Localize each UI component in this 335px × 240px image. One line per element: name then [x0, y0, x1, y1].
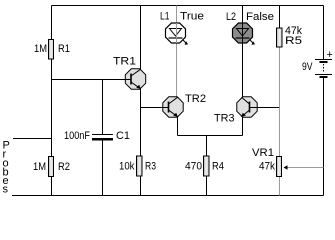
- svg-text:100nF: 100nF: [64, 130, 90, 142]
- svg-text:R5: R5: [285, 35, 302, 47]
- svg-text:TR2: TR2: [185, 93, 206, 105]
- svg-text:1M: 1M: [34, 43, 47, 55]
- svg-text:R2: R2: [58, 161, 70, 173]
- svg-text:L2: L2: [226, 11, 236, 23]
- svg-text:TR3: TR3: [214, 113, 235, 125]
- svg-text:L1: L1: [160, 11, 170, 23]
- svg-text:True: True: [180, 11, 204, 23]
- svg-text:s: s: [3, 184, 9, 196]
- svg-text:VR1: VR1: [252, 147, 274, 159]
- svg-text:False: False: [246, 11, 274, 23]
- svg-text:10k: 10k: [119, 161, 135, 173]
- svg-text:1M: 1M: [33, 161, 46, 173]
- svg-text:470: 470: [185, 161, 202, 173]
- svg-text:TR1: TR1: [113, 56, 136, 68]
- svg-text:9V: 9V: [302, 61, 313, 73]
- svg-text:47k: 47k: [259, 161, 275, 173]
- svg-text:+: +: [327, 49, 333, 61]
- svg-text:R3: R3: [145, 161, 156, 173]
- svg-text:R4: R4: [212, 161, 224, 173]
- svg-text:C1: C1: [116, 130, 130, 142]
- svg-text:R1: R1: [58, 43, 70, 55]
